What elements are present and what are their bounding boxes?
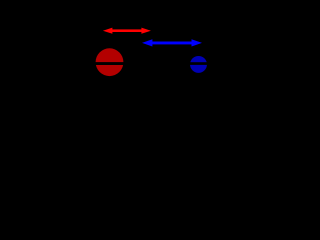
ion M1 (large dark red circle) [95,48,125,76]
displacement arrow u1 (red double-headed) [103,28,151,34]
axis line (black, crosses both circles) [60,62,230,65]
ion M2 (small dark blue circle) [189,56,208,73]
displacement arrow u2 (blue double-headed) [142,39,202,46]
